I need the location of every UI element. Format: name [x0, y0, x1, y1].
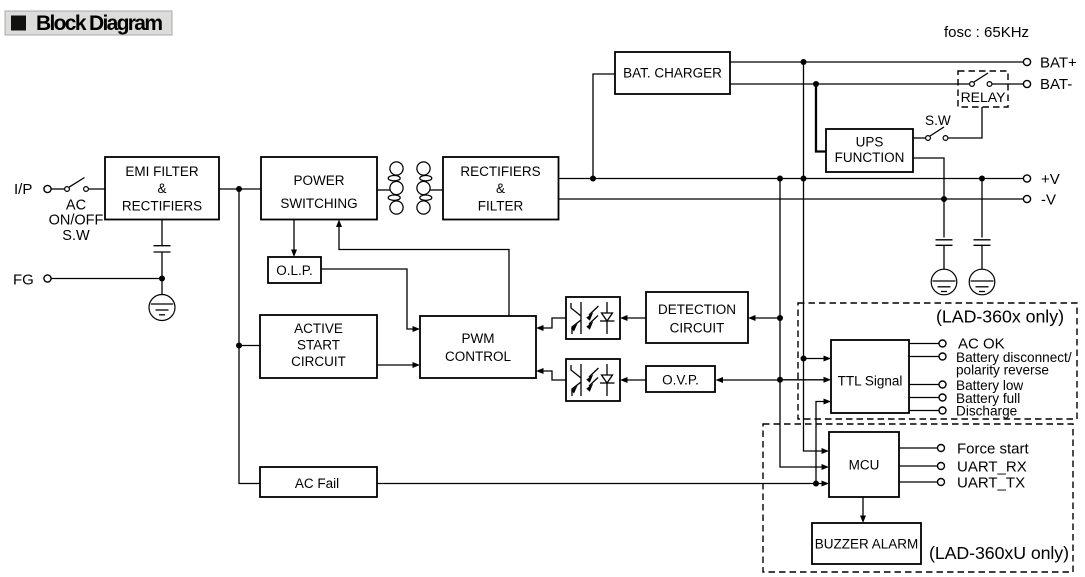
title bar [5, 11, 172, 35]
block BUZZER ALARM [812, 523, 921, 564]
node FG [13, 272, 51, 289]
switch S.W near UPS [913, 113, 951, 140]
svg-text:BAT-: BAT- [1040, 76, 1072, 93]
wire OLP to PWM [321, 269, 417, 329]
arrow ASC into PWM [413, 362, 421, 368]
svg-text:RELAY: RELAY [961, 89, 1007, 105]
MCU output Force start [899, 441, 1030, 458]
block TTL Signal [831, 340, 909, 413]
node I/P [14, 181, 51, 198]
wire EMI to POWER SWITCHING [219, 188, 261, 190]
svg-text:UART_RX: UART_RX [957, 459, 1027, 476]
svg-text:Discharge: Discharge [956, 404, 1017, 419]
wire +V rail [559, 178, 1024, 180]
block PWM CONTROL [420, 316, 536, 378]
wire PWM to POWER SWITCHING feedback [339, 222, 509, 316]
block MCU [829, 432, 899, 497]
arrow opto2 into PWM [536, 368, 544, 374]
svg-text:CIRCUIT: CIRCUIT [291, 354, 346, 369]
svg-text:ON/OFF: ON/OFF [49, 213, 104, 229]
capacitor below EMI [154, 220, 171, 305]
svg-text:S.W: S.W [925, 113, 951, 128]
ground 2 [969, 269, 995, 295]
arrow into DETECTION [748, 315, 756, 321]
svg-text:BUZZER ALARM: BUZZER ALARM [815, 537, 919, 552]
arrow into MCU in3 [822, 481, 830, 487]
wire MCU to buzzer [862, 497, 864, 520]
block POWER SWITCHING [261, 157, 377, 220]
TTL output AC OK [909, 336, 1005, 353]
wire vertical bus x780 [780, 179, 826, 468]
ground 1 [931, 269, 957, 295]
MCU output UART_TX [899, 475, 1025, 492]
svg-text:AC: AC [66, 198, 86, 214]
block O.V.P. [646, 366, 715, 392]
TTL output Battery disconnect [909, 350, 1072, 378]
node junction bus to active start [236, 343, 242, 349]
svg-text:UART_TX: UART_TX [957, 475, 1025, 492]
node +V junction dots [590, 176, 596, 182]
node BAT+ junction [801, 59, 807, 65]
svg-text:EMI FILTER: EMI FILTER [125, 164, 199, 179]
svg-text:FILTER: FILTER [478, 199, 524, 214]
wire BAT+ line [730, 61, 1024, 63]
svg-text:SWITCHING: SWITCHING [280, 196, 357, 211]
node BAT- junction [813, 81, 819, 87]
arrow into opto2 [620, 377, 628, 383]
svg-text:O.L.P.: O.L.P. [276, 263, 313, 278]
TTL output Battery full [909, 391, 1020, 406]
svg-text:FUNCTION: FUNCTION [835, 150, 905, 165]
wire transformer to rectifiers [430, 189, 443, 191]
node dot AC fail branch [813, 481, 819, 487]
svg-text:(LAD-360x only): (LAD-360x only) [936, 307, 1064, 327]
svg-text:S.W: S.W [62, 228, 90, 244]
svg-text:-V: -V [1041, 192, 1056, 209]
arrow into POWER SWITCHING [336, 220, 342, 228]
arrow into opto1 [620, 315, 628, 321]
wire OVP to opto2 [623, 379, 646, 381]
wire +V to capacitor C2 [981, 179, 983, 238]
svg-text:+V: +V [1041, 171, 1060, 188]
switch AC ON/OFF S.W [49, 178, 104, 244]
arrow into OLP [291, 250, 297, 258]
node FG junction [159, 276, 165, 282]
node junction at bus top [236, 186, 242, 192]
wire bus to OVP [719, 379, 781, 381]
svg-text:CIRCUIT: CIRCUIT [670, 321, 725, 336]
block O.L.P. [268, 257, 321, 283]
svg-text:&: & [157, 181, 166, 196]
svg-text:Block Diagram: Block Diagram [36, 12, 163, 35]
arrow into TTL in2 [824, 377, 832, 383]
wire I/P to switch [51, 188, 64, 190]
transformer T1 primary [388, 162, 403, 214]
wire opto1 to PWM [539, 318, 566, 328]
svg-text:RECTIFIERS: RECTIFIERS [460, 164, 540, 179]
wire DETECTION to opto1 [623, 317, 646, 319]
svg-text:&: & [496, 181, 505, 196]
wire PS to OLP [293, 220, 295, 255]
MCU output UART_RX [899, 459, 1027, 476]
optocoupler U2 [566, 359, 620, 401]
wire S.W to relay [948, 107, 982, 138]
wire to TTL in1 [804, 358, 829, 360]
arrow into TTL in3 [824, 399, 832, 405]
block EMI FILTER & RECTIFIERS [105, 157, 219, 220]
wire -V rail [559, 198, 1024, 200]
node BAT+ terminal [1023, 55, 1077, 72]
wire to TTL in2 [780, 379, 828, 381]
dashed box LAD-360xU only [763, 424, 1073, 572]
arrow opto1 into PWM [536, 325, 544, 331]
transformer T1 secondary [417, 162, 432, 214]
block UPS FUNCTION [826, 129, 913, 172]
dashed box LAD-360x only [798, 303, 1077, 419]
block DETECTION CIRCUIT [646, 292, 748, 343]
node -V terminal [1023, 192, 1056, 209]
wire BAT- line right of relay [992, 83, 1024, 85]
svg-text:O.V.P.: O.V.P. [662, 373, 699, 388]
arrow into buzzer [860, 516, 866, 524]
wire AC Fail to MCU [377, 483, 826, 485]
arrow into TTL in1 [824, 356, 832, 362]
svg-text:I/P: I/P [14, 181, 32, 198]
capacitor C2 [974, 240, 991, 281]
node BAT- terminal [1023, 76, 1072, 93]
wire branch up to TTL in3 [816, 402, 828, 484]
svg-text:DETECTION: DETECTION [658, 302, 736, 317]
TTL output Discharge [909, 404, 1017, 419]
svg-text:fosc : 65KHz: fosc : 65KHz [944, 24, 1029, 41]
svg-text:START: START [297, 338, 340, 353]
wire opto2 to PWM [539, 371, 566, 380]
capacitor C1 [936, 240, 953, 281]
svg-text:Force start: Force start [957, 441, 1030, 458]
svg-text:BAT+: BAT+ [1040, 55, 1077, 72]
svg-text:polarity reverse: polarity reverse [956, 363, 1049, 378]
node +V terminal [1023, 171, 1059, 188]
node dots on x780 [777, 315, 783, 321]
block ACTIVE START CIRCUIT [260, 315, 377, 378]
svg-text:MCU: MCU [849, 458, 880, 473]
svg-text:AC Fail: AC Fail [295, 476, 339, 491]
node -V junction dot [941, 196, 947, 202]
svg-text:FG: FG [13, 272, 34, 289]
wire +V bus to DETECTION [751, 317, 780, 319]
wire ASC to PWM [377, 364, 417, 366]
svg-text:CONTROL: CONTROL [445, 349, 511, 364]
svg-text:(LAD-360xU only): (LAD-360xU only) [929, 543, 1069, 563]
wire FG line [51, 278, 162, 280]
wire vertical bus x803 [804, 62, 827, 451]
arrow OLP into PWM [413, 326, 421, 332]
arrow into OVP [716, 377, 724, 383]
arrow into MCU in1 [822, 448, 830, 454]
svg-text:ACTIVE: ACTIVE [294, 321, 343, 336]
optocoupler U1 [566, 297, 620, 339]
wire BAT- to UPS FUNCTION (thick) [816, 84, 826, 152]
wire BAT- line left of relay [730, 83, 970, 85]
block BAT. CHARGER [615, 52, 730, 94]
svg-text:BAT. CHARGER: BAT. CHARGER [623, 66, 722, 81]
block RECTIFIERS & FILTER [443, 157, 559, 220]
svg-text:TTL Signal: TTL Signal [838, 374, 903, 389]
svg-text:PWM: PWM [462, 331, 495, 346]
wire feed to BAT. CHARGER [593, 74, 615, 179]
ground FG [149, 295, 175, 321]
svg-text:RECTIFIERS: RECTIFIERS [122, 199, 202, 214]
wire bus to ACTIVE START [239, 345, 260, 347]
TTL output Battery low [909, 378, 1023, 393]
wire UPS output to -V [913, 158, 944, 238]
svg-text:UPS: UPS [856, 135, 884, 150]
wire main left bus down to AC Fail [239, 189, 260, 484]
arrow into MCU in2 [822, 464, 830, 470]
wire switch to EMI [88, 188, 105, 190]
svg-text:POWER: POWER [293, 173, 344, 188]
relay RELAY [958, 71, 1008, 107]
wire PS to transformer [377, 189, 390, 191]
block AC Fail [260, 467, 377, 497]
node dot on x803 TTL [801, 356, 807, 362]
